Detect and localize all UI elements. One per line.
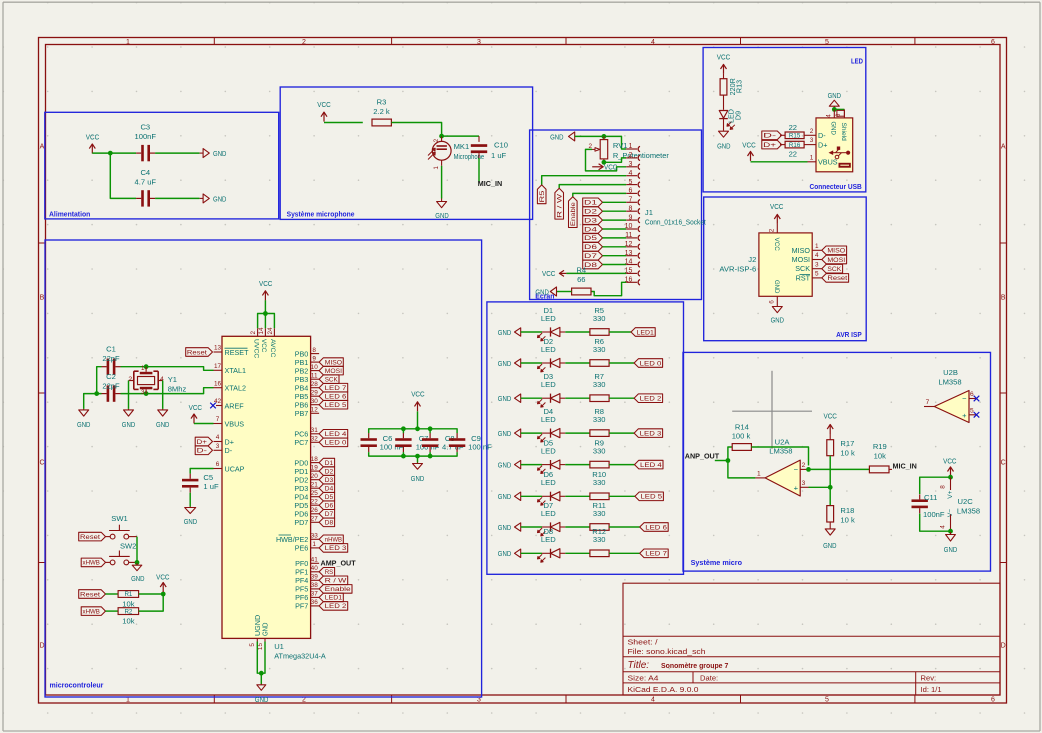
connector J2 AVR-ISP-6 body [759,233,812,296]
global label LED 3 (U1) [319,544,348,553]
svg-text:38: 38 [311,582,319,589]
wire Reset to R1 [106,593,119,595]
svg-text:LM358: LM358 [769,447,792,456]
resistor R18 [827,506,834,522]
svg-text:Rev:: Rev: [921,673,937,682]
junction xtal gnd rail [94,391,99,396]
svg-text:6: 6 [835,113,842,117]
global label D+ (usb) [762,140,782,149]
svg-text:D2: D2 [325,468,334,475]
wire R17 to R18 [829,456,831,506]
svg-text:AVR ISP: AVR ISP [836,330,862,339]
svg-text:27: 27 [311,516,319,523]
wire decoupling top rail [369,429,457,434]
svg-text:3: 3 [802,480,806,487]
svg-text:MOSI: MOSI [325,368,342,375]
svg-text:D7: D7 [325,511,334,518]
wire C10 to MIC_IN [478,158,480,183]
svg-text:Conn_01x16_Socket: Conn_01x16_Socket [645,218,707,227]
svg-text:C10: C10 [494,141,508,150]
wire D7 to R11 [565,526,590,528]
svg-text:VCC: VCC [189,403,203,412]
pin 27 PD7 U1 [311,521,320,523]
pin 25 PD4 U1 [311,496,320,498]
svg-text:3: 3 [477,39,481,46]
svg-text:4: 4 [815,252,819,259]
svg-text:330: 330 [593,314,606,323]
svg-text:GND: GND [498,523,512,532]
wire R1 to VCC rail [139,593,164,595]
U1 top power pins [257,328,259,336]
pin 7 J1 [626,201,637,203]
global label D5 (U1) [319,492,335,501]
resistor R6 [590,360,609,367]
svg-text:PE6: PE6 [295,544,309,553]
svg-text:AVCC: AVCC [269,339,276,357]
wire D6 to J1 pin 12 [603,246,627,248]
svg-text:GND: GND [213,149,227,158]
capacitor C8 [422,438,438,441]
svg-text:3: 3 [815,261,819,268]
junction U1 bottom GND [259,671,264,676]
svg-text:PC7: PC7 [294,438,308,447]
svg-text:LED 0: LED 0 [325,440,347,447]
global label D4 (ecran) [583,225,603,234]
junction R1 VCC [161,592,166,597]
LED D4 [542,432,551,434]
junction decoupling top [401,426,406,431]
svg-text:R1: R1 [124,591,132,598]
global label LED 7 (U1) [319,383,348,392]
wire C1 to XTAL1 [121,367,214,371]
wire GND to J1 pin1 [575,136,627,149]
junction decoupling bottom [401,454,406,459]
global label D2 (ecran) [583,207,603,216]
wire R3 to mic node [391,123,441,133]
svg-text:MOSI: MOSI [792,255,810,264]
global label D- (U1) [195,446,212,455]
USB receptacle glyph [839,163,851,168]
svg-text:B: B [40,295,45,302]
pin 15 J1 [626,272,637,274]
resistor R13 [720,79,727,95]
svg-text:GND: GND [944,545,958,554]
svg-text:5: 5 [825,696,829,703]
svg-text:1 uF: 1 uF [203,482,219,491]
resistor R16 [780,144,785,146]
pin 6 GND J2 [776,296,778,306]
svg-text:RS: RS [325,569,334,576]
svg-text:C4: C4 [140,168,150,177]
svg-text:D-: D- [763,133,776,140]
power VCC (J1 pin15) [559,272,566,274]
wire GND to D7 [521,526,542,528]
global label D8 (ecran) [583,260,603,269]
pin 31 PC6 U1 [311,433,320,435]
pin 42 AREF U1 [216,405,222,407]
svg-text:30: 30 [311,398,319,405]
junction ANP_OUT [726,458,731,463]
resistor R17 [827,440,834,456]
power GND (C3) [200,152,204,154]
power GND (C5) [189,507,191,508]
wire mic node to C10 [442,135,479,137]
global label D6 (ecran) [583,243,603,252]
svg-text:MK1: MK1 [454,142,470,151]
wire J3 top pins [834,108,844,110]
svg-text:18: 18 [311,456,319,463]
svg-text:R15: R15 [789,133,801,140]
svg-text:10 k: 10 k [840,515,855,524]
wire junction up to R14 [728,447,732,461]
svg-text:GND: GND [717,141,731,150]
svg-text:D+: D+ [225,437,234,446]
svg-text:LED 7: LED 7 [645,551,667,558]
svg-text:37: 37 [311,591,319,598]
svg-text:19: 19 [311,464,319,471]
svg-text:1: 1 [757,470,761,477]
power GND (D3 row) [515,394,521,402]
resistor R12 [590,550,609,557]
svg-text:J1: J1 [645,208,653,217]
wire GND to D5 [521,464,542,466]
svg-text:2: 2 [802,462,806,469]
global label D4 (U1) [319,484,335,493]
global label LED 6 [640,523,669,532]
power GND (microphone) [441,199,443,202]
svg-text:PB7: PB7 [295,409,309,418]
U1 bottom power pins [256,638,258,641]
svg-text:1: 1 [810,154,814,161]
no-connect U2B pin5 [974,412,980,418]
svg-text:VCC: VCC [770,202,784,211]
svg-text:VCC: VCC [259,279,273,288]
global label D3 (U1) [319,475,335,484]
svg-text:LED 5: LED 5 [640,494,662,501]
svg-text:17: 17 [214,363,222,370]
wire D1 to J1 pin 7 [603,201,627,203]
wire VCC to R3 [324,122,363,124]
LED D6 [542,495,551,497]
svg-text:MOSI: MOSI [827,257,845,264]
svg-text:40: 40 [311,565,319,572]
capacitor C5 [182,479,198,482]
pin 5 J1 [626,184,637,186]
svg-text:21: 21 [311,481,319,488]
LED D9 [719,111,728,119]
svg-text:MISO: MISO [827,248,845,255]
svg-text:LED: LED [541,535,556,544]
svg-text:8: 8 [312,347,316,354]
svg-text:xHWB: xHWB [83,560,100,567]
svg-text:Système micro: Système micro [691,558,743,567]
power VCC (RV1) [592,166,603,168]
power VCC (U1 top) [264,291,266,301]
pin 17 XTAL1 U1 [214,369,223,371]
power VCC (R13) [723,64,725,74]
svg-text:5: 5 [970,408,974,415]
pin 18 PD0 U1 [311,462,320,464]
wire R18 to GND [829,522,831,529]
wire xHWB to R2 [106,610,119,612]
wire D3 to J1 pin 9 [603,219,627,221]
global label R / W (vertical) [555,188,564,219]
resistor R11 [590,524,609,531]
wire ANP_OUT to junction [715,460,728,462]
svg-text:10 k: 10 k [840,448,855,457]
svg-text:GND: GND [131,574,145,583]
svg-text:nHWB: nHWB [325,537,342,544]
resistor R7 [590,395,609,402]
svg-text:SW1: SW1 [111,514,127,523]
junction SW2 GND [135,560,140,565]
svg-text:VCC: VCC [604,162,618,171]
svg-text:SCK: SCK [795,264,810,273]
pin 7 VBUS U1 [214,423,223,425]
svg-text:8Mhz: 8Mhz [168,384,187,393]
svg-text:Title:: Title: [628,660,650,671]
power GND (D4 row) [515,429,521,437]
resistor R3 [372,119,391,126]
svg-text:8: 8 [940,485,947,489]
svg-text:AREF: AREF [225,401,245,410]
pin 6 UCAP U1 [214,468,223,470]
svg-text:MIC_IN: MIC_IN [478,179,502,188]
global label LED 2 (U1) [319,602,348,611]
svg-text:LED: LED [541,345,556,354]
pin 33 HWB/PE2 U1 [311,538,320,540]
group box Systeme micro [683,352,991,571]
svg-text:Système microphone: Système microphone [287,210,355,219]
svg-text:D: D [39,643,44,650]
svg-text:LED1: LED1 [325,595,343,602]
wire GND to D1 [521,331,542,333]
svg-text:R2: R2 [124,608,132,615]
svg-text:VBUS: VBUS [818,158,838,167]
wire U1 bottom GND [257,642,265,674]
pin 4 GND J3 [833,109,835,118]
svg-text:100 nF: 100 nF [416,443,440,452]
svg-text:C: C [1001,460,1006,467]
svg-text:14: 14 [258,327,265,335]
power GND (C4) [200,197,204,199]
svg-text:GND: GND [535,288,549,297]
resistor R14 [732,444,751,451]
svg-text:MIC_IN: MIC_IN [893,462,917,471]
pin 2 D- J3 [804,134,816,136]
global label Enable (vertical) [569,197,578,228]
pin 14 J1 [626,264,637,266]
svg-text:GND: GND [830,122,837,136]
svg-text:330: 330 [593,380,606,389]
svg-text:File: sono.kicad_sch: File: sono.kicad_sch [628,647,706,656]
LED D3 [542,397,551,399]
svg-text:1: 1 [141,365,145,372]
pin 1 J1 [626,148,637,150]
pin 3 U2A non-inverting [800,486,808,488]
svg-text:VCC: VCC [317,100,331,109]
wire R10 to label LED 5 [609,495,635,497]
power GND (RV1 top) [569,132,575,141]
svg-text:1: 1 [628,143,632,150]
wire U2C to C11 [920,477,951,494]
svg-text:LED 2: LED 2 [640,396,662,403]
wire decoupling bottom rail [369,452,457,456]
svg-text:LED1: LED1 [637,329,655,336]
pin 41 PF0 U1 [311,562,320,564]
svg-text:C11: C11 [924,493,937,502]
wire GND to D2 [521,362,542,364]
svg-text:7: 7 [216,416,220,423]
wire R9 to label LED 4 [609,464,634,466]
svg-text:VCC: VCC [773,238,780,251]
group box Alimentation [45,112,279,219]
pin 16 XTAL2 U1 [214,387,223,389]
capacitor C3 [141,145,144,161]
svg-text:D-: D- [818,131,826,140]
junction RV1 bottom [602,160,607,165]
svg-text:LED 3: LED 3 [325,545,347,552]
svg-text:D-: D- [225,446,233,455]
wire R11 to label LED 6 [609,526,640,528]
svg-text:VBUS: VBUS [225,419,245,428]
pin 6 shield J3 [843,109,845,118]
svg-text:VCC: VCC [824,411,838,420]
power GND (U2C) [950,532,952,535]
global label LED 3 [634,429,663,438]
wire D8 to R12 [565,552,590,554]
LED D7 [542,526,551,528]
svg-text:ANP_OUT: ANP_OUT [685,452,720,461]
svg-text:LED 4: LED 4 [325,431,347,438]
svg-text:Reset: Reset [80,591,100,598]
svg-text:SCK: SCK [325,377,339,384]
wire GND to D3 [521,397,542,399]
svg-text:D1: D1 [584,200,597,207]
svg-text:GND: GND [122,420,136,429]
svg-text:UCAP: UCAP [225,464,245,473]
junction U2C bottom [948,529,953,534]
power GND (R18) [825,529,835,535]
svg-text:XTAL2: XTAL2 [225,384,246,393]
svg-text:4: 4 [628,170,632,177]
power GND (R4) [550,287,556,296]
wire D6 to R10 [565,495,590,497]
svg-text:xHWB: xHWB [83,608,100,615]
svg-text:3: 3 [628,161,632,168]
power GND (D5 row) [515,460,521,468]
svg-text:U1: U1 [274,642,284,651]
svg-text:33: 33 [311,533,319,540]
svg-text:VCC: VCC [742,141,756,150]
pin 26 PD6 U1 [311,513,320,515]
junction U2A pin2 [806,467,811,472]
svg-text:D+: D+ [197,439,208,446]
svg-text:Enable: Enable [570,202,577,226]
power GND (D1 row) [515,328,521,336]
global label LED 7 [640,549,669,558]
svg-text:UVCC: UVCC [252,339,259,358]
wire R2 to VCC rail [139,594,164,611]
svg-text:GND: GND [550,132,564,141]
svg-text:D1: D1 [325,460,334,467]
svg-text:100 nF: 100 nF [468,443,492,452]
group box Systeme microphone [280,87,532,219]
global label D2 (U1) [319,467,335,476]
resistor R4 [572,288,591,295]
crystal Y1 [145,367,147,372]
svg-text:4.7 uF: 4.7 uF [442,443,464,452]
svg-text:GND: GND [771,316,785,325]
svg-text:3: 3 [216,443,220,450]
pin 20 PD2 U1 [311,479,320,481]
svg-text:−: − [962,394,967,403]
global label D7 (ecran) [583,251,603,260]
svg-text:D-: D- [197,448,207,455]
pin 3 D+ J3 [804,144,816,146]
global label D6 (U1) [319,501,335,510]
svg-text:330: 330 [593,345,606,354]
svg-text:R13: R13 [735,80,744,93]
svg-text:+: + [962,411,967,420]
svg-text:22: 22 [311,498,319,505]
wire D5 to R9 [565,464,590,466]
svg-text:D2: D2 [584,209,597,216]
pin 10 PB2 U1 [311,370,320,372]
power VCC (alimentation) [91,144,93,154]
svg-text:D6: D6 [325,503,334,510]
wire R12 to label LED 7 [609,552,640,554]
svg-text:GND: GND [498,394,512,403]
svg-text:2: 2 [810,128,814,135]
svg-text:VCC: VCC [260,339,267,352]
global label D1 (ecran) [583,198,603,207]
svg-text:GND: GND [828,91,842,100]
wire R14 to U2A pin2 [751,447,808,466]
svg-text:GND: GND [498,429,512,438]
pin 28 PB4 U1 [311,387,320,389]
global label D8 (U1) [319,518,335,527]
capacitor C1 [107,359,110,375]
svg-text:C9: C9 [471,434,481,443]
wire junction down to U2A output [728,461,756,478]
global label Reset (R1) [79,590,106,599]
svg-text:13: 13 [214,345,222,352]
pin 21 PD3 U1 [311,487,320,489]
svg-text:6: 6 [991,39,995,46]
svg-text:MISO: MISO [325,359,342,366]
svg-text:C1: C1 [106,345,116,354]
global label LED 0 [634,359,663,368]
group box AVR ISP [704,197,867,341]
wire J1 pin6 to Enable label [573,193,626,196]
svg-text:R19: R19 [873,442,887,451]
svg-text:LM358: LM358 [938,377,961,386]
svg-text:4: 4 [651,696,655,703]
wire C11 to U2C bottom [920,514,951,532]
svg-text:microcontroleur: microcontroleur [50,681,104,690]
svg-text:D: D [1001,643,1006,650]
svg-text:LM358: LM358 [957,506,980,515]
svg-text:2.2 k: 2.2 k [373,107,390,116]
power GND (D9) [719,131,729,137]
svg-text:R4: R4 [576,266,586,275]
svg-text:330: 330 [593,535,606,544]
pin 3 D- U1 [214,449,223,451]
pin 7 U2B output [924,406,934,408]
global label Reset (J2) [822,274,849,283]
global label LED 5 [635,492,664,501]
